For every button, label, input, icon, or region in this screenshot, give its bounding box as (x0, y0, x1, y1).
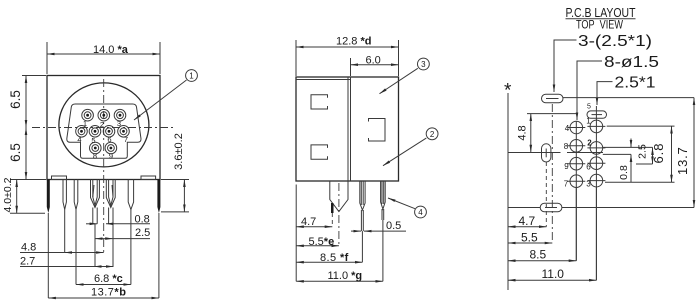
svg-text:8: 8 (564, 142, 569, 151)
svg-text:2.5: 2.5 (637, 144, 649, 159)
svg-text:3: 3 (117, 119, 121, 128)
svg-text:5: 5 (91, 136, 95, 145)
svg-text:1: 1 (83, 119, 87, 128)
svg-text:0.8: 0.8 (618, 165, 630, 180)
svg-text:0.8: 0.8 (135, 213, 150, 225)
svg-text:3-(2.5*1): 3-(2.5*1) (578, 33, 652, 50)
svg-text:4.7: 4.7 (519, 214, 536, 228)
svg-text:2.7: 2.7 (20, 256, 35, 268)
svg-text:5.5: 5.5 (521, 231, 538, 245)
svg-text:8: 8 (93, 152, 97, 161)
svg-text:1: 1 (189, 72, 194, 81)
svg-text:4.7: 4.7 (301, 216, 316, 228)
svg-text:6.5: 6.5 (8, 90, 23, 109)
svg-text:P.C.B LAYOUT: P.C.B LAYOUT (566, 5, 636, 20)
svg-text:9: 9 (564, 162, 569, 171)
svg-text:7: 7 (564, 180, 569, 189)
svg-text:5.5*e: 5.5*e (309, 236, 335, 248)
svg-text:0.5: 0.5 (386, 220, 401, 232)
svg-text:3: 3 (586, 180, 591, 189)
svg-text:4.8: 4.8 (517, 125, 529, 140)
svg-text:8.5: 8.5 (530, 248, 547, 262)
svg-text:4.8: 4.8 (21, 242, 36, 254)
svg-text:13.7*b: 13.7*b (91, 287, 126, 299)
svg-text:6: 6 (586, 163, 591, 172)
svg-text:4: 4 (565, 124, 570, 133)
svg-text:2: 2 (430, 130, 435, 139)
svg-text:2.5*1: 2.5*1 (615, 75, 656, 92)
svg-text:6.8: 6.8 (651, 142, 666, 163)
svg-text:4: 4 (77, 135, 81, 144)
svg-text:5: 5 (587, 104, 591, 111)
svg-text:2.5: 2.5 (135, 227, 150, 239)
svg-text:6.5: 6.5 (8, 143, 23, 162)
svg-text:8.5 *f: 8.5 *f (320, 252, 349, 264)
svg-text:TOP VIEW: TOP VIEW (576, 20, 623, 32)
svg-text:8-ø1.5: 8-ø1.5 (604, 54, 659, 71)
svg-text:11.0: 11.0 (542, 267, 565, 281)
svg-text:6.0: 6.0 (366, 55, 381, 67)
svg-text:3.6±0.2: 3.6±0.2 (173, 133, 185, 170)
svg-text:7: 7 (124, 135, 128, 144)
svg-text:2: 2 (587, 139, 592, 148)
svg-text:2: 2 (100, 120, 104, 129)
svg-text:6: 6 (107, 135, 111, 144)
svg-text:13.7: 13.7 (675, 146, 690, 175)
svg-text:11.0 *g: 11.0 *g (328, 270, 363, 282)
svg-text:4.0±0.2: 4.0±0.2 (2, 177, 14, 212)
svg-text:4: 4 (418, 208, 423, 217)
svg-text:12.8 *d: 12.8 *d (336, 36, 371, 48)
svg-text:3: 3 (421, 60, 426, 69)
svg-text:14.0 *a: 14.0 *a (93, 44, 129, 56)
svg-text:9: 9 (109, 152, 113, 161)
svg-text:6.8 *c: 6.8 *c (94, 273, 123, 285)
svg-text:1: 1 (586, 117, 591, 126)
